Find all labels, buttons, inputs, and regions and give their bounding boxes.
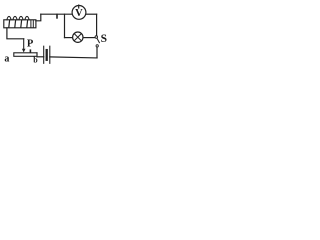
svg-text:b: b <box>33 55 38 64</box>
battery right long plate <box>49 46 51 63</box>
switch S upper terminal <box>95 36 98 39</box>
svg-text:P: P <box>27 39 34 50</box>
speck on rheostat top edge <box>29 50 31 52</box>
voltmeter U1 circle <box>72 5 86 19</box>
junction dot <box>56 15 58 18</box>
coil turn 1 <box>7 16 11 19</box>
wire: switch to bottom wire <box>96 47 98 58</box>
rheostat body <box>14 53 37 57</box>
lamp X cross <box>74 34 81 41</box>
wire: elbow from coil to slider <box>7 28 24 39</box>
coil turn 3 <box>19 16 23 19</box>
wire: lamp row left <box>65 37 73 39</box>
switch S lower terminal <box>96 45 98 47</box>
wire: top horizontal (left of voltmeter) <box>41 13 72 15</box>
lamp L1 circle <box>73 32 83 42</box>
wire: top horizontal (right of voltmeter) <box>86 13 97 15</box>
switch S blade <box>97 38 99 42</box>
voltmeter top tick <box>78 5 80 8</box>
rheostat right terminal edge <box>36 53 38 57</box>
coil exit verticals <box>31 20 33 27</box>
battery left long plate <box>43 46 45 63</box>
coil turn 2 <box>13 16 17 19</box>
svg-text:S: S <box>101 33 107 45</box>
coil turn 4 <box>25 16 29 19</box>
wire: battery to rheostat <box>37 56 44 58</box>
svg-text:a: a <box>4 54 9 65</box>
wire: right vertical down to switch <box>96 14 98 35</box>
svg-text:V: V <box>75 8 83 19</box>
coil box (electromagnet core) <box>4 20 36 28</box>
wire: bottom horizontal <box>50 57 97 58</box>
wire: lamp row right <box>83 37 95 39</box>
wire: lamp branch vertical <box>64 14 66 37</box>
rheostat slider arrow <box>23 39 25 49</box>
wire: coil right lead up to top wire <box>36 14 41 21</box>
battery middle short thick plate <box>46 50 48 60</box>
